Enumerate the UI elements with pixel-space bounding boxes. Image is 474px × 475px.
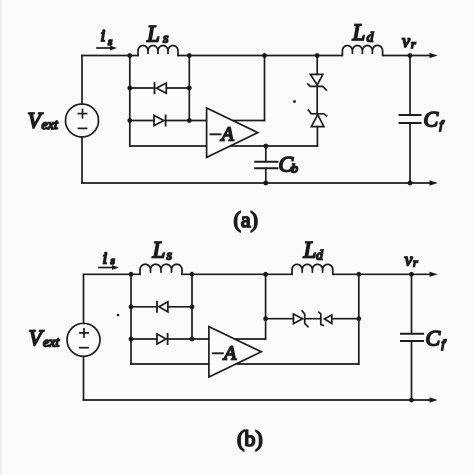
diode pair wire mid (b) [305,318,321,320]
svg-text:v: v [405,250,413,270]
diode pair wire right (b) [332,318,359,320]
zener branch wire top (a) [316,56,318,75]
node dot Cb top (a) [263,144,268,149]
svg-text:f: f [440,118,445,132]
wire left branch (a) [129,56,131,147]
zener branch wire mid (a) [316,86,318,113]
svg-text:r: r [411,37,416,51]
svg-text:(b): (b) [237,426,263,451]
op-amp U1 (a) [207,108,258,157]
wire right branch (b) [191,274,193,339]
svg-text:i: i [101,26,106,45]
arrow is (b) [99,267,113,269]
zener Z1 (a) [310,74,323,85]
svg-text:b: b [292,161,299,176]
wire center vertical (b) [265,274,267,339]
node dots bottom rail (a) [263,181,268,186]
node dot bottom rail (b) [409,398,414,403]
svg-text:A: A [220,124,235,146]
ink speck (b) [117,314,120,317]
diode D4 (b) row2 pointing right [131,338,157,340]
zener Z3 (b) pointing right [293,314,302,324]
diode D1 (a) row1 pointing left [130,87,155,89]
svg-text:ext: ext [43,336,60,351]
scan edge shading [0,0,2,475]
wire top rail mid segment (a) [178,55,342,57]
zener branch wire bottom (a) [316,127,318,146]
wire source bottom (a) [81,137,83,183]
arrow bottom rail (b) [430,397,438,402]
arrow bottom rail (a) [430,180,438,185]
svg-text:d: d [316,249,324,264]
wire top rail left segment (b) [84,273,141,275]
wire left branch (b) [130,274,132,364]
svg-text:d: d [367,31,375,46]
arrow top rail (b) [430,272,438,277]
svg-text:C: C [424,107,439,132]
wire bottom rail (b) [84,399,431,401]
inductor Ld (b) [292,264,333,274]
node dots top rail (b) [117,272,414,403]
node dots diode rows (b) [129,304,134,309]
zener Z4 (b) pointing left [319,312,323,325]
svg-text:s: s [167,249,173,264]
wire top rail right segment (b) [333,273,431,275]
wire source top (a) [81,56,83,105]
wire source top (b) [83,274,85,323]
node dots diode rows (a) [127,86,132,91]
wire feedback vertical (a) [264,56,266,121]
wire lower horizontal (a) [130,145,317,147]
svg-text:(a): (a) [234,207,258,232]
wire lower horizontal (b) [131,363,359,365]
source Vext (b) [67,323,100,356]
arrow top rail (a) [430,53,438,58]
svg-text:v: v [402,31,410,51]
wire top rail mid segment (b) [182,273,292,275]
wire feedback horizontal (a) [189,120,264,122]
capacitor Cf (a) [409,56,411,115]
svg-text:A: A [222,343,237,365]
capacitor Cb (a) [265,146,267,161]
svg-text:L: L [146,22,160,47]
source Vext (a) [66,104,99,137]
diode pair wire left (b) [266,318,294,320]
wire right vertical (b) [358,274,360,364]
arrow is (a) [97,47,111,49]
node dots diode pair row (b) [263,316,268,321]
svg-text:s: s [111,255,115,267]
inductor Ld (a) [342,45,382,55]
svg-text:i: i [103,249,108,268]
svg-text:s: s [163,32,169,47]
inductor Ls (b) [140,264,182,274]
svg-text:r: r [413,256,418,270]
wire feedback horizontal (b) [192,338,266,340]
diode D2 (a) row2 pointing right [130,120,154,122]
diode D3 (b) row1 pointing left [131,306,157,308]
svg-text:L: L [303,238,317,263]
svg-text:f: f [442,337,447,351]
svg-text:C: C [426,326,441,351]
capacitor Cf (b) [411,274,413,333]
wire top rail left segment (a) [82,55,138,57]
svg-text:L: L [152,238,166,263]
wire top rail right segment (a) [383,55,431,57]
svg-text:L: L [352,20,366,45]
wire source bottom (b) [83,356,85,400]
inductor Ls (a) [138,46,178,56]
ink speck (a) [293,100,296,103]
zener Z2 (a) [308,110,326,116]
op-amp U2 (b) [209,327,261,377]
node dots top rail (a) [127,53,412,185]
svg-text:ext: ext [42,118,59,133]
wire right branch (a) [188,56,190,121]
wire bottom rail (a) [82,182,431,184]
